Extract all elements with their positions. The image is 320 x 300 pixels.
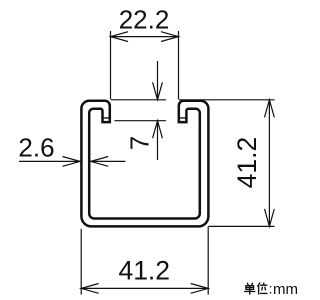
svg-text:22.2: 22.2 <box>119 5 170 35</box>
text 7 (rotated) <box>124 136 154 150</box>
dim 41.2 right extension lines <box>179 100 275 227</box>
svg-text:41.2: 41.2 <box>118 256 170 286</box>
svg-text:2.6: 2.6 <box>18 133 54 163</box>
svg-text:41.2: 41.2 <box>232 137 262 189</box>
arrows outside span <box>157 61 159 100</box>
arrowheads <box>111 32 129 42</box>
dim 41.2 bottom extension lines <box>81 227 208 295</box>
lip end inner cap lines <box>103 117 187 119</box>
dim 2.6 leader lines <box>19 157 126 167</box>
svg-text:mm: mm <box>273 281 298 298</box>
unit note: kanji 単 drawn as paths <box>245 283 255 294</box>
svg-text::: : <box>269 281 273 297</box>
dim 22.2 extension lines <box>111 31 179 99</box>
dim 7 extension lines <box>111 61 166 160</box>
svg-text:7: 7 <box>124 136 154 150</box>
text 41.2 right (rotated) <box>232 137 262 189</box>
channel profile outline <box>81 101 208 227</box>
unit note: kanji 位 drawn as paths <box>258 283 267 294</box>
dim line <box>81 287 208 289</box>
dim 22.2 line <box>111 36 179 38</box>
dim line <box>268 100 270 227</box>
